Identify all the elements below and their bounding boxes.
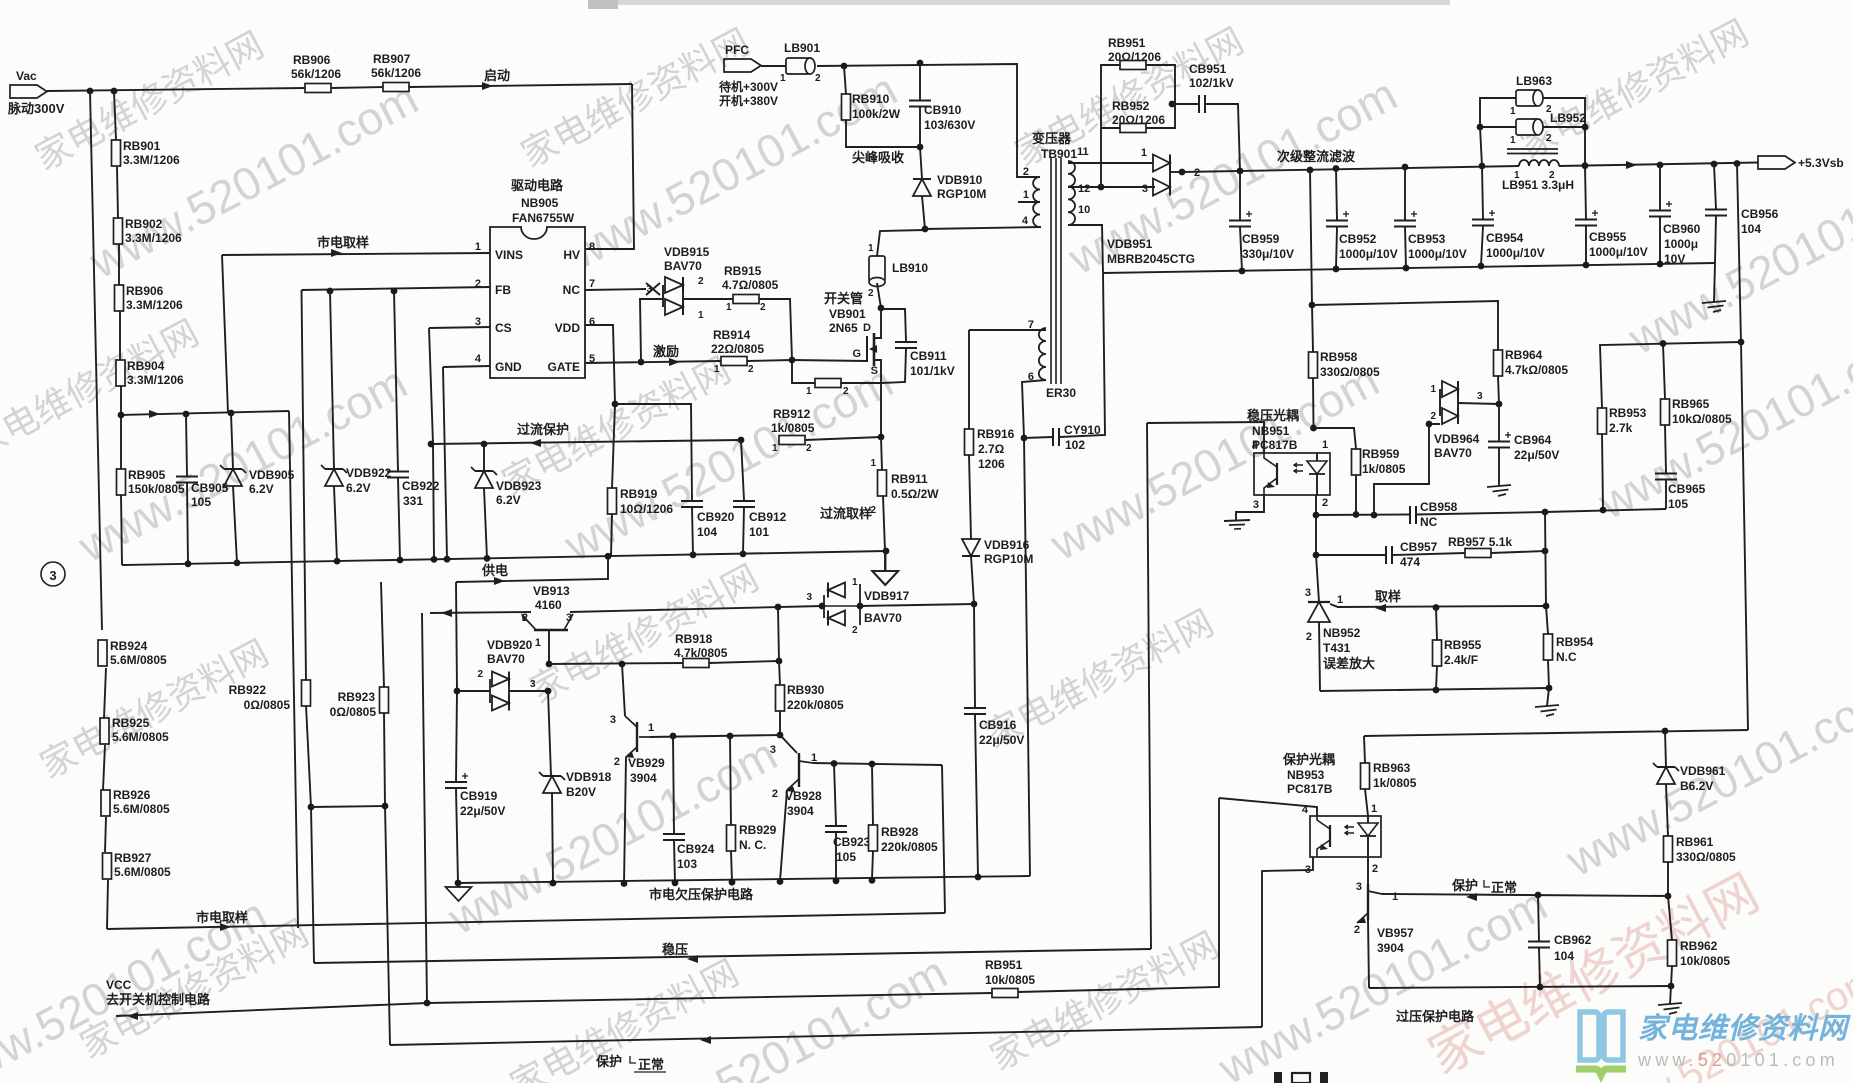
node VDB905 tap [228,410,235,417]
svg-text:6: 6 [589,316,595,328]
svg-text:3: 3 [49,568,56,583]
svg-text:10Ω/1206: 10Ω/1206 [620,502,673,516]
svg-text:1k/0805: 1k/0805 [771,421,815,435]
wire comp to RB953 [1545,509,1666,512]
svg-text:驱动电路: 驱动电路 [511,178,564,193]
resistor RB906 3.3M [115,285,124,311]
svg-text:保护: 保护 [595,1054,622,1069]
svg-text:1: 1 [870,458,876,469]
wire left Vac vertical [90,91,102,630]
svg-text:220k/0805: 220k/0805 [787,698,844,712]
resistor RB907 56k [383,83,409,92]
svg-text:10: 10 [1078,204,1090,216]
wire Vac rail [47,88,305,91]
node rail CB959 [1237,168,1244,175]
capacitor CB953 1000u [1404,167,1406,220]
svg-text:474: 474 [1400,555,1420,569]
inductor LB901 [761,65,786,67]
capacitor CB911 [881,309,906,341]
svg-text:RB951: RB951 [1108,36,1146,50]
logo book icon [1580,1012,1623,1060]
svg-text:市电取样: 市电取样 [317,235,369,250]
svg-text:CB955: CB955 [1589,230,1627,244]
svg-text:VDB922: VDB922 [346,466,392,480]
svg-text:VB928: VB928 [785,789,822,803]
svg-text:1: 1 [698,310,704,321]
wire FB drop RB922 [302,290,307,680]
capacitor CB962 104 [1538,895,1539,941]
svg-text:VDB917: VDB917 [864,589,910,603]
svg-text:102/1kV: 102/1kV [1189,76,1234,90]
svg-text:市电欠压保护电路: 市电欠压保护电路 [649,887,754,902]
svg-text:变压器: 变压器 [1032,131,1072,146]
node base VB928 [777,732,784,739]
node drain [878,305,885,312]
svg-text:1000μ/10V: 1000μ/10V [1486,246,1545,260]
svg-text:4: 4 [1022,215,1029,227]
node RB930 top tap [775,604,782,611]
svg-text:22Ω/0805: 22Ω/0805 [711,342,764,356]
svg-text:CB965: CB965 [1668,482,1706,496]
svg-text:3904: 3904 [787,804,814,818]
svg-text:3: 3 [566,612,572,624]
node PFC-RB910 [841,63,848,70]
svg-text:CB919: CB919 [460,789,498,803]
svg-text:开机+380V: 开机+380V [719,93,778,108]
svg-text:2: 2 [1430,411,1436,422]
wire rail after coil [1559,163,1758,167]
svg-text:市电取样: 市电取样 [196,910,248,925]
svg-text:RB958: RB958 [1320,350,1358,364]
wire link0 [311,806,385,807]
node K-CB958 [1313,512,1320,519]
svg-text:1: 1 [1023,189,1029,201]
node gate-RB915 [789,357,796,364]
capacitor CB923 105 [834,764,836,826]
svg-text:2: 2 [1372,863,1378,875]
ground protect [1670,986,1671,1004]
wire cut marks [1274,1072,1282,1083]
wire opto collector drop [1147,423,1151,949]
wire secondary ground rail [1103,263,1715,273]
svg-text:5.6M/0805: 5.6M/0805 [112,730,169,744]
wire base net [549,663,683,664]
wire pin12 [1068,186,1155,188]
svg-text:1000μ/10V: 1000μ/10V [1339,247,1398,261]
resistor RB910 100k [844,66,846,94]
capacitor CB955 1000u [1585,166,1586,219]
node source [878,434,885,441]
wire VDB964 link [1374,424,1440,515]
diode VDB951 MBRB2045CTG [1153,155,1170,172]
svg-text:RB964: RB964 [1505,348,1543,362]
svg-text:TB901: TB901 [1041,147,1077,161]
svg-text:105: 105 [191,495,211,509]
resistor RB961 330R [1664,836,1673,862]
diode VDB910 RGP10M [920,147,922,179]
resistor RB964 4.7k [1498,376,1499,404]
wire VCC out [127,1012,138,1020]
capacitor CB920 [681,500,703,502]
svg-text:RB912: RB912 [773,407,811,421]
wire CB919 branch [456,582,457,781]
svg-text:VB913: VB913 [533,584,570,598]
svg-text:3904: 3904 [630,771,657,785]
node VDB964-RB964 [1496,401,1503,408]
svg-text:RB925: RB925 [112,716,150,730]
svg-text:6.2V: 6.2V [346,481,371,495]
svg-text:1000μ: 1000μ [1664,237,1698,251]
svg-text:3: 3 [1253,499,1259,511]
zener VDB961 B6.2V [1665,731,1666,767]
node rail RB958 [1307,167,1314,174]
svg-text:12: 12 [1078,183,1090,195]
transformer ER30 aux winding [1039,328,1046,380]
capacitor CB912 [741,440,744,500]
node CB923 top [831,760,838,767]
svg-text:RB926: RB926 [113,788,151,802]
node b1 [1433,687,1440,694]
wire RB923 drop [381,582,384,687]
svg-text:PC817B: PC817B [1287,782,1333,796]
svg-text:1: 1 [1510,106,1516,117]
node FB-CB922 [391,288,398,295]
transformer TB901 secondary winding [1068,161,1075,225]
svg-text:2: 2 [843,386,849,397]
svg-text:1k/0805: 1k/0805 [1373,776,1417,790]
svg-text:5.6M/0805: 5.6M/0805 [110,653,167,667]
ground CB964 [1487,485,1511,487]
svg-text:RB957 5.1k: RB957 5.1k [1448,535,1512,549]
svg-text:2.7k: 2.7k [1609,421,1633,435]
svg-text:CB911: CB911 [910,349,947,363]
svg-text:NB951: NB951 [1252,424,1290,438]
svg-text:NB905: NB905 [521,196,559,210]
node RB958-RB964 [1309,302,1316,309]
svg-text:VDD: VDD [555,321,581,335]
node VCC tap [424,1000,431,1007]
svg-text:CB916: CB916 [979,718,1017,732]
resistor RB958 330R [1310,170,1312,305]
port Vac input [10,85,47,98]
node rail LB right [1582,162,1589,169]
svg-text:过流保护: 过流保护 [517,422,569,437]
wire VB929 collector net [650,735,780,737]
svg-text:4160: 4160 [535,598,562,612]
svg-text:3: 3 [806,592,812,603]
svg-text:2: 2 [1023,166,1029,178]
node VDB918 top [545,688,552,695]
resistor RB953 2.7k [1598,408,1607,434]
svg-text:RB906: RB906 [126,284,164,298]
capacitor CB922 331 [394,291,398,471]
wire VINS feed [222,253,490,255]
svg-text:CB964: CB964 [1514,433,1552,447]
svg-text:保护光耦: 保护光耦 [1282,752,1335,767]
svg-text:1: 1 [714,364,720,375]
svg-text:CB954: CB954 [1486,231,1524,245]
resistor RB962 10k [1668,896,1672,940]
svg-text:CB905: CB905 [191,481,229,495]
inductor LB952 [1480,126,1516,128]
wire ref tap [1330,604,1546,607]
wire PFC rail [817,64,1037,177]
svg-text:4: 4 [475,353,482,365]
wire FB net [302,287,491,290]
svg-text:101: 101 [749,525,769,539]
svg-text:RB951: RB951 [985,958,1023,972]
svg-text:ER30: ER30 [1046,386,1076,400]
zener VDB923 6.2V [483,444,485,471]
svg-text:CB923: CB923 [833,835,871,849]
wire RB953 RB965 top [1600,342,1741,408]
svg-text:RB930: RB930 [787,683,825,697]
svg-text:VB957: VB957 [1377,926,1414,940]
wire wenya [314,949,1151,963]
svg-text:B20V: B20V [566,785,596,799]
node RB953 bottom [1600,507,1607,514]
svg-text:56k/1206: 56k/1206 [371,66,421,80]
svg-text:3.3M/1206: 3.3M/1206 [127,373,184,387]
wire to winding pin4 [925,227,1041,229]
svg-text:LB951 3.3μH: LB951 3.3μH [1502,178,1574,192]
transformer TB901 primary winding [1033,177,1040,227]
svg-text:RB953: RB953 [1609,406,1647,420]
wire HV feed [586,84,634,249]
svg-text:2: 2 [748,364,754,375]
svg-text:CB910: CB910 [924,103,962,117]
svg-text:1: 1 [1322,439,1328,451]
transistor VB957 3904 [1367,857,1369,884]
node gate-VDB915 [638,359,645,366]
node PFC-CB910 [917,60,924,67]
svg-text:1: 1 [806,386,812,397]
node comp tap [1371,512,1378,519]
svg-text:BAV70: BAV70 [1434,446,1472,460]
node rail CB953 [1402,164,1409,171]
capacitor CB959 330u [1239,171,1241,220]
svg-text:FAN6755W: FAN6755W [512,211,575,225]
wire comp2 net [1316,554,1385,556]
resistor RB954 NC [1546,606,1548,634]
diode VDB915 BAV70 [640,299,663,362]
svg-text:2: 2 [1194,167,1200,179]
wire shidian top [121,411,289,415]
svg-text:RB923: RB923 [338,690,376,704]
node CS-OC [428,441,435,448]
svg-text:5.6M/0805: 5.6M/0805 [114,865,171,879]
resistor RB929 NC [730,736,731,825]
resistor RB963 1k [1364,736,1365,763]
svg-text:PFC: PFC [725,43,749,57]
svg-text:BAV70: BAV70 [664,259,702,273]
svg-text:LB910: LB910 [892,261,928,275]
svg-text:家电维修资料网: 家电维修资料网 [1638,1012,1851,1045]
svg-text:150k/0805: 150k/0805 [128,482,185,496]
node rail feed [1734,160,1741,167]
wire VDD net [585,325,615,404]
svg-text:VINS: VINS [495,248,523,262]
svg-text:启动: 启动 [484,68,510,83]
svg-text:101/1kV: 101/1kV [910,364,955,378]
svg-text:3.3M/1206: 3.3M/1206 [126,298,183,312]
wire VB913 out [570,606,822,612]
wire qidong arrow [482,82,493,90]
wire primary rail [122,551,886,565]
svg-text:RB962: RB962 [1680,939,1718,953]
svg-text:T431: T431 [1323,641,1351,655]
svg-text:2: 2 [760,302,766,313]
transistor VB929 3904 [622,664,625,716]
resistor RB919 10R [612,404,615,488]
svg-text:103: 103 [677,857,697,871]
diode VDB916 RGP10M [969,455,971,539]
svg-text:BAV70: BAV70 [864,611,902,625]
svg-text:脉动300V: 脉动300V [7,101,65,116]
zener VDB922 6.2V [330,291,334,469]
node zener divider [1665,893,1672,900]
svg-text:2: 2 [1354,924,1360,936]
svg-text:RB929: RB929 [739,823,777,837]
zener VDB905 6.2V [231,413,233,469]
svg-text:8: 8 [589,241,595,253]
node RB965 top [1660,340,1667,347]
svg-text:1: 1 [1371,803,1377,815]
svg-text:VDB918: VDB918 [566,770,612,784]
svg-text:RB922: RB922 [229,683,267,697]
svg-text:供电: 供电 [481,563,508,578]
svg-text:330μ/10V: 330μ/10V [1242,247,1294,261]
svg-text:VDB923: VDB923 [496,479,542,493]
ground undervolt [457,884,460,887]
node aux return [971,601,978,608]
wire pin3 protect out [1262,857,1313,1027]
svg-text:NC: NC [1420,515,1438,529]
node ref-RB955 [1433,604,1440,611]
svg-text:3: 3 [610,714,616,726]
wire undervolt rail [458,876,1030,883]
capacitor CB910 [919,63,921,100]
node primary-4 [922,226,929,233]
svg-text:1: 1 [1337,594,1343,606]
svg-text:LB901: LB901 [784,41,820,55]
node K2 [1313,552,1320,559]
port +5.3Vsb output [1758,156,1795,169]
svg-text:1000μ/10V: 1000μ/10V [1589,245,1648,259]
op-amp U NB905 FAN6755W driver IC [490,227,585,378]
svg-text:10k/0805: 10k/0805 [985,973,1035,987]
wire gate to mosfet [792,360,867,361]
svg-text:1: 1 [535,637,541,649]
svg-text:RB965: RB965 [1672,397,1710,411]
svg-text:N. C.: N. C. [739,838,766,852]
svg-text:2: 2 [1306,631,1312,643]
svg-text:2: 2 [1549,170,1555,181]
svg-text:CB920: CB920 [697,510,735,524]
svg-text:330Ω/0805: 330Ω/0805 [1320,365,1380,379]
wire supply arrow [441,609,452,617]
svg-text:CB953: CB953 [1408,232,1446,246]
svg-text:保护: 保护 [1451,878,1478,893]
capacitor CB965 105 [1655,473,1677,475]
ground TL431 [1547,688,1549,706]
resistor RB915 4.7R [733,295,759,304]
svg-text:过压保护电路: 过压保护电路 [1396,1009,1475,1024]
svg-text:RB928: RB928 [881,825,919,839]
svg-text:1: 1 [780,73,786,84]
svg-text:PC817B: PC817B [1252,438,1298,452]
wire VB928 collector net [813,763,942,765]
resistor RB918 4.7k [683,659,709,668]
node b2 [1546,685,1553,692]
wire GND net [443,366,490,367]
node FB-VDB922 [327,288,334,295]
svg-text:RB959: RB959 [1362,447,1400,461]
node CB905 tap [183,411,190,418]
svg-text:次级整流滤波: 次级整流滤波 [1277,149,1356,164]
capacitor CB964 22u [1498,404,1500,441]
svg-text:3: 3 [1477,391,1483,402]
svg-text:5.6M/0805: 5.6M/0805 [113,802,170,816]
port PFC input [724,59,761,72]
svg-text:2: 2 [852,625,858,636]
svg-text:RGP10M: RGP10M [937,187,986,201]
svg-text:LB963: LB963 [1516,74,1552,88]
svg-text:RB915: RB915 [724,264,762,278]
resistor RB959 1k [1314,428,1357,449]
svg-text:VDB915: VDB915 [664,245,710,259]
svg-text:0Ω/0805: 0Ω/0805 [244,698,291,712]
wire GATE drive [585,361,721,363]
svg-text:1: 1 [1514,170,1520,181]
svg-text:105: 105 [1668,497,1688,511]
svg-text:4: 4 [1252,440,1259,452]
svg-text:LB952: LB952 [1550,111,1586,125]
wire pin6 [1022,380,1046,438]
node LB952 tap [1477,124,1484,131]
node CY910 left [1021,435,1028,442]
capacitor CB957 474 [1385,546,1387,564]
capacitor CB905 [186,414,187,476]
wire gongdian [456,556,608,582]
ground primary [884,551,886,571]
resistor RB928 220k [872,764,873,825]
node RB923 bottom link [382,803,389,810]
node RB904 bottom [118,412,125,419]
svg-text:2: 2 [522,612,528,624]
svg-text:CB962: CB962 [1554,933,1592,947]
resistor RB957 5.1k [1465,549,1491,558]
capacitor CB919 22u [445,781,467,783]
svg-text:2.7Ω: 2.7Ω [978,442,1005,456]
wire LED cathode [1315,495,1317,555]
resistor RB904 3.3M [116,360,125,386]
svg-text:FB: FB [495,283,511,297]
wire pin4 VCC [1219,798,1317,816]
svg-text:2: 2 [477,669,483,680]
resistor RB914 22R [721,357,747,366]
resistor RB965 10k [1663,344,1665,400]
svg-text:CB952: CB952 [1339,232,1377,246]
svg-text:1: 1 [1430,384,1436,395]
svg-text:RB954: RB954 [1556,635,1594,649]
resistor RB923 0R [380,687,389,713]
svg-text:104: 104 [1741,222,1761,236]
svg-text:NB952: NB952 [1323,626,1361,640]
svg-text:3904: 3904 [1377,941,1404,955]
svg-text:待机+300V: 待机+300V [719,79,778,94]
svg-text:0Ω/0805: 0Ω/0805 [330,705,377,719]
